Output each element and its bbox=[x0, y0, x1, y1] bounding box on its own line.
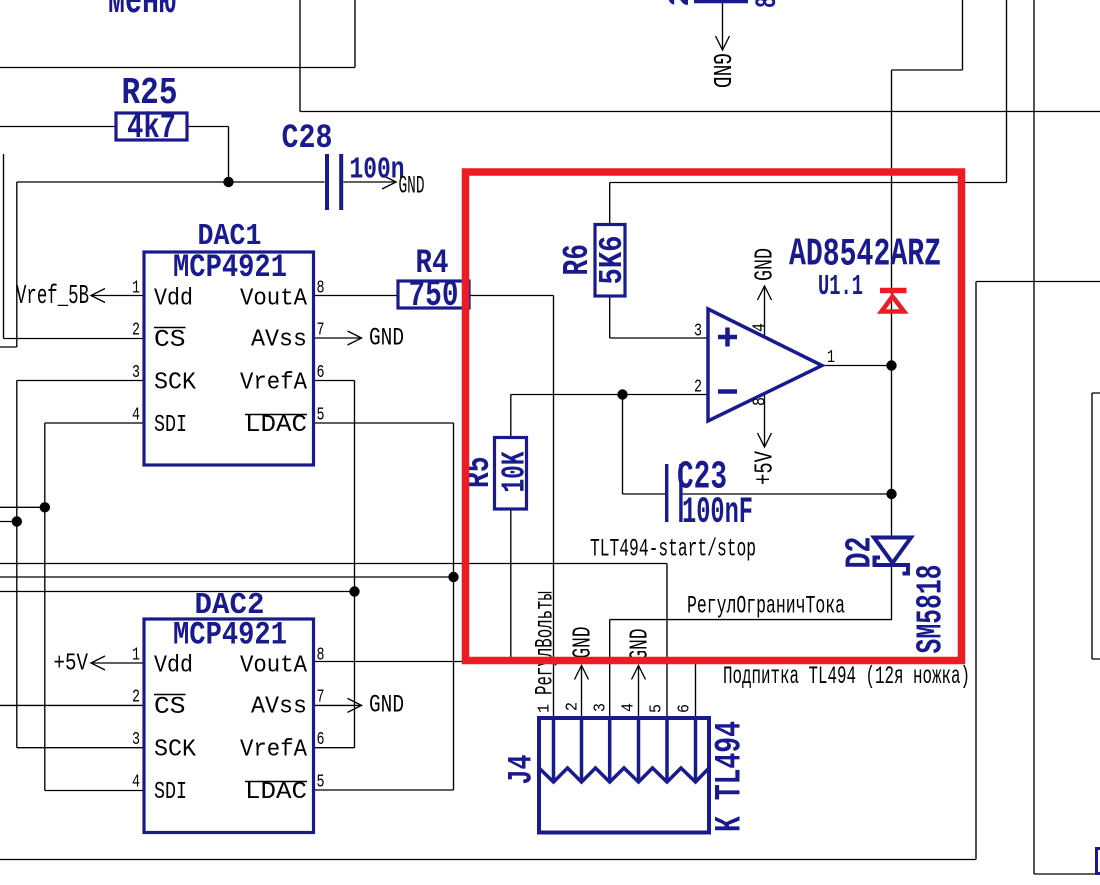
ground arrow DAC2 AVss bbox=[348, 698, 362, 712]
wire LDAC net stub to left edge bbox=[0, 576, 454, 578]
svg-text:3: 3 bbox=[132, 363, 140, 383]
ic DAC1 body bbox=[144, 252, 314, 465]
svg-text:SDI: SDI bbox=[154, 412, 187, 439]
wire R5 top to op-amp pin 2 bbox=[511, 395, 708, 438]
net arrow +5V DAC2 bbox=[91, 656, 105, 670]
wire op-amp output pin 1 bbox=[822, 365, 892, 367]
ground arrow top center bbox=[716, 36, 730, 50]
svg-text:LDAC: LDAC bbox=[245, 412, 307, 439]
svg-text:U1.1: U1.1 bbox=[818, 270, 863, 303]
wire op-amp pin 8 stub bbox=[764, 394, 766, 447]
svg-text:GND: GND bbox=[750, 248, 780, 281]
capacitor C23 right plate bbox=[679, 464, 682, 522]
wire output top corner to upper edge bbox=[892, 0, 963, 70]
svg-text:7: 7 bbox=[317, 321, 325, 341]
svg-text:РегулОграничТока: РегулОграничТока bbox=[687, 592, 845, 621]
wire SDI net stub to left edge bbox=[0, 506, 45, 508]
wire DAC1 CS pin 2 from left edge bbox=[4, 154, 145, 339]
resistor R4 body bbox=[398, 281, 469, 308]
wire R6 top to net at right bbox=[610, 0, 1007, 225]
svg-text:GND: GND bbox=[706, 53, 736, 88]
resistor R6 body bbox=[595, 225, 625, 297]
node VrefA junction bbox=[349, 586, 359, 596]
svg-text:меню: меню bbox=[108, 0, 176, 25]
svg-text:Vref_5B: Vref_5B bbox=[16, 282, 89, 312]
wire R4 to J4 pin 1 vertical bbox=[469, 296, 554, 719]
wire VrefA net stub to left edge bbox=[0, 591, 355, 593]
overline DAC1 LDAC bbox=[245, 414, 307, 416]
ground arrow J4 pin 4 bbox=[632, 666, 646, 680]
svg-text:8: 8 bbox=[751, 397, 771, 406]
svg-text:C28: C28 bbox=[282, 120, 333, 158]
wire output vertical through D2 bbox=[891, 70, 893, 620]
svg-text:4: 4 bbox=[132, 773, 140, 793]
ground arrow op-amp pin 4 bbox=[758, 286, 772, 300]
svg-text:3: 3 bbox=[694, 322, 702, 342]
op-amp U1 triangle bbox=[708, 309, 822, 421]
svg-text:VrefA: VrefA bbox=[240, 370, 308, 397]
svg-text:R6: R6 bbox=[557, 244, 598, 276]
wire VrefA net DAC1 pin6 to DAC2 pin6 bbox=[314, 381, 355, 748]
svg-text:1: 1 bbox=[132, 646, 140, 666]
svg-text:2: 2 bbox=[564, 702, 583, 711]
wire DAC2 VoutA pin 8 to J4 pin 6 (under red) bbox=[314, 662, 696, 719]
wire DAC2 AVss pin 7 to GND arrow bbox=[314, 704, 362, 706]
svg-text:7: 7 bbox=[317, 688, 325, 708]
svg-text:+5V: +5V bbox=[750, 451, 780, 485]
wire DAC1 AVss pin 7 to GND arrow bbox=[314, 337, 362, 339]
net arrow Vref_5B bbox=[91, 289, 105, 303]
op-amp minus input symbol bbox=[718, 389, 737, 394]
node SCK junction bbox=[12, 516, 22, 526]
svg-text:VoutA: VoutA bbox=[240, 286, 308, 313]
svg-text:VoutA: VoutA bbox=[240, 653, 308, 680]
svg-text:4: 4 bbox=[620, 703, 639, 712]
top edge component fragment bar bbox=[694, 0, 748, 3]
bottom right blue fragment bbox=[1097, 849, 1100, 874]
wire right vertical to bottom right bbox=[1034, 0, 1100, 874]
svg-text:5: 5 bbox=[648, 704, 667, 713]
red annotation diode bar bbox=[880, 288, 907, 294]
node inverting input junction bbox=[617, 389, 627, 399]
svg-text:Подпитка TL494 (12я ножка): Подпитка TL494 (12я ножка) bbox=[723, 662, 970, 691]
svg-text:CS: CS bbox=[154, 694, 186, 721]
svg-text:1: 1 bbox=[536, 704, 555, 713]
svg-text:VrefA: VrefA bbox=[240, 737, 308, 764]
svg-text:3: 3 bbox=[592, 703, 611, 712]
wire SCK net stub to left edge bbox=[0, 521, 17, 523]
svg-text:5K6: 5K6 bbox=[594, 236, 631, 285]
svg-text:GND: GND bbox=[369, 691, 404, 720]
svg-text:4: 4 bbox=[751, 323, 771, 332]
svg-text:SCK: SCK bbox=[154, 370, 197, 397]
ic DAC2 body bbox=[144, 619, 314, 833]
svg-text:TLT494-start/stop: TLT494-start/stop bbox=[590, 535, 756, 564]
svg-text:6: 6 bbox=[676, 704, 695, 713]
wire node to C28 left plate bbox=[17, 181, 325, 183]
wire top-left horizontal net bbox=[0, 0, 355, 68]
svg-text:8): 8) bbox=[751, 0, 785, 8]
wire op-amp pin 4 stub bbox=[764, 286, 766, 337]
capacitor C23 left plate bbox=[665, 464, 668, 522]
overline DAC2 CS bbox=[154, 694, 186, 696]
node R25/C28 junction bbox=[223, 177, 233, 187]
svg-text:Vdd: Vdd bbox=[154, 653, 193, 680]
wire LDAC net DAC1 pin5 to DAC2 pin5 bbox=[314, 423, 454, 790]
wire SDI net DAC1 pin4 to DAC2 pin4 bbox=[45, 423, 144, 791]
wire left stub down exiting left bbox=[0, 182, 17, 347]
wire SCK net DAC1 pin3 to DAC2 pin3 bbox=[17, 381, 144, 748]
node op-amp output junction bbox=[886, 360, 896, 370]
wire DAC2 CS pin 2 from left edge bbox=[0, 704, 144, 706]
red annotation diode triangle bbox=[882, 297, 905, 312]
svg-text:Vdd: Vdd bbox=[154, 286, 193, 313]
svg-text:J4: J4 bbox=[504, 755, 542, 785]
wire J4 pin 2 GND stub bbox=[581, 666, 583, 719]
svg-text:+5V: +5V bbox=[54, 651, 89, 678]
svg-text:4k7: 4k7 bbox=[127, 108, 176, 148]
svg-text:SDI: SDI bbox=[154, 779, 187, 806]
svg-text:2: 2 bbox=[132, 688, 140, 708]
svg-text:2: 2 bbox=[694, 378, 702, 398]
svg-text:3: 3 bbox=[132, 730, 140, 750]
svg-text:CS: CS bbox=[154, 327, 186, 354]
svg-text:LDAC: LDAC bbox=[245, 779, 307, 806]
wire R25 right lead down to node bbox=[187, 127, 229, 183]
wire J4 pin 4 GND stub bbox=[638, 666, 640, 719]
svg-text:AVss: AVss bbox=[251, 327, 307, 354]
svg-text:4: 4 bbox=[132, 406, 140, 426]
svg-text:2: 2 bbox=[132, 321, 140, 341]
ground arrow DAC1 AVss bbox=[348, 331, 362, 345]
op-amp plus input symbol bbox=[718, 328, 737, 347]
overline DAC2 LDAC bbox=[245, 781, 307, 783]
wire Vref_5B to DAC1 Vdd pin 1 bbox=[91, 295, 144, 297]
svg-text:10K: 10K bbox=[497, 451, 534, 492]
svg-text:GND: GND bbox=[625, 629, 655, 661]
connector J4 zigzag contacts bbox=[539, 768, 709, 782]
svg-text:5: 5 bbox=[317, 406, 325, 426]
svg-text:GND: GND bbox=[369, 324, 404, 353]
connector J4 pin lines bbox=[554, 719, 696, 782]
svg-text:AD8542ARZ: AD8542ARZ bbox=[789, 233, 941, 277]
svg-text:MCP4921: MCP4921 bbox=[173, 249, 287, 286]
wire long horizontal y=111 across sheet bbox=[300, 111, 1100, 113]
svg-text:1: 1 bbox=[132, 279, 140, 299]
svg-text:750: 750 bbox=[409, 275, 459, 317]
ground arrow C28 bbox=[382, 175, 396, 189]
wire inverting node down to C23 left plate bbox=[623, 395, 666, 495]
wire bottom bus left bbox=[0, 282, 1100, 860]
svg-text:К TL494: К TL494 bbox=[710, 721, 752, 832]
wire menu vertical then right bbox=[299, 0, 301, 112]
resistor R25 body bbox=[116, 113, 187, 140]
svg-text:8: 8 bbox=[317, 646, 325, 666]
wire R5 bottom lead bbox=[510, 509, 512, 660]
svg-text:1: 1 bbox=[827, 348, 835, 368]
diode D2 schottky cathode bar bbox=[875, 558, 909, 574]
svg-text:100nF: 100nF bbox=[682, 492, 753, 534]
wire top center GND stub bbox=[722, 2, 724, 51]
node C23 output junction bbox=[886, 489, 896, 499]
svg-text:D2: D2 bbox=[840, 537, 881, 569]
svg-text:GND: GND bbox=[568, 627, 598, 659]
resistor R5 body bbox=[495, 438, 527, 510]
svg-text:РегулВольты: РегулВольты bbox=[531, 591, 560, 695]
ground arrow J4 pin 2 bbox=[575, 666, 589, 680]
node LDAC junction bbox=[448, 572, 458, 582]
overline DAC1 CS bbox=[154, 327, 186, 329]
connector J4 body bbox=[539, 718, 709, 833]
svg-text:100n: 100n bbox=[350, 153, 405, 188]
svg-text:8: 8 bbox=[317, 279, 325, 299]
wire R6 bottom to op-amp pin 3 bbox=[610, 296, 708, 338]
diode D2 triangle bbox=[874, 538, 911, 564]
capacitor C28 right plate bbox=[339, 154, 343, 210]
svg-text:GND: GND bbox=[399, 172, 425, 201]
wire C23 right plate to output node bbox=[683, 493, 892, 495]
net arrow +5V op-amp pin 8 bbox=[758, 433, 772, 447]
svg-text:SM5818: SM5818 bbox=[911, 565, 952, 654]
wire +5V to DAC2 Vdd pin 1 bbox=[91, 662, 144, 664]
red highlight rectangle bbox=[466, 172, 962, 661]
node SDI junction bbox=[40, 502, 50, 512]
svg-text:AVss: AVss bbox=[251, 694, 307, 721]
wire DAC1 VoutA pin 8 to R4 bbox=[314, 295, 399, 297]
wire C28 right plate to GND arrow bbox=[343, 181, 396, 183]
wire TLT494-start/stop net to J4 pin 5 bbox=[0, 564, 667, 719]
svg-text:5: 5 bbox=[317, 773, 325, 793]
wire R25 left lead bbox=[0, 126, 116, 128]
svg-text:6: 6 bbox=[317, 730, 325, 750]
wire RegulOgranichToka net to J4 pin 3 bbox=[610, 620, 892, 718]
svg-text:MCP4921: MCP4921 bbox=[173, 617, 287, 654]
svg-text:2: 2 bbox=[664, 0, 698, 7]
svg-text:6: 6 bbox=[317, 363, 325, 383]
wire right edge C-shape bbox=[1092, 393, 1100, 659]
svg-text:SCK: SCK bbox=[154, 737, 197, 764]
capacitor C28 left plate bbox=[325, 154, 329, 210]
